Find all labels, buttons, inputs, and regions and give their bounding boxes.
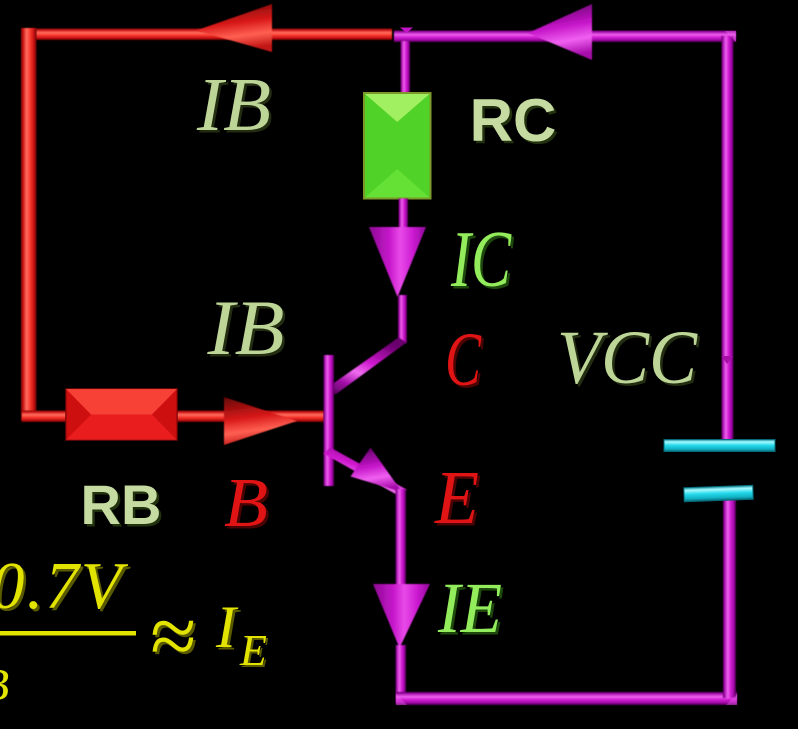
arrow: emitter current arrow on emitter lead (351, 448, 403, 493)
label E (emitter) (434, 456, 481, 543)
resistor RB (66, 389, 177, 440)
svg-text:B: B (224, 465, 268, 542)
wire: magenta right vertical upper (top to battery plus) (722, 36, 734, 440)
svg-text:IB: IB (196, 63, 271, 147)
arrow: red current arrow IB pointing right (into base) (224, 397, 297, 445)
joint chevron on right wire (722, 356, 734, 364)
arrow: red current arrow IB pointing left (top wire) (196, 4, 272, 52)
battery VCC negative plate (684, 485, 753, 501)
label C (collector) (445, 318, 484, 405)
label RC (470, 87, 559, 157)
svg-text:IE: IE (437, 568, 502, 648)
wire: magenta emitter vertical down to IE arrow (396, 489, 407, 586)
resistor RC (364, 93, 431, 199)
svg-text:C: C (445, 318, 482, 402)
wire: magenta right vertical lower (battery minus to bottom) (723, 500, 736, 698)
label VCC (557, 316, 701, 403)
transistor Q1 collector lead (diagonal) (328, 338, 407, 395)
battery VCC positive plate (664, 440, 775, 452)
arrow: magenta current arrow IE pointing down (373, 584, 430, 648)
svg-text:0.7V: 0.7V (0, 549, 129, 623)
svg-text:E: E (434, 456, 479, 540)
arrow: magenta current arrow IC pointing down (369, 227, 426, 297)
formula denominator RB partial (0, 659, 9, 710)
label B (base) (224, 465, 271, 545)
wire: magenta vertical from top node down to RC (401, 41, 411, 94)
junction chevron at top node (400, 28, 413, 34)
label IB (middle) (206, 284, 287, 374)
wire: magenta vertical below IE arrow to bottom corner (396, 645, 407, 703)
corner bevel bottom-right (726, 694, 737, 705)
transistor Q1 base bar (324, 355, 335, 486)
wire: magenta top horizontal (VCC loop) (394, 31, 736, 43)
label IE (437, 568, 504, 651)
label IC (450, 216, 514, 307)
wire: magenta vertical below RC (399, 199, 409, 229)
wire: magenta bottom horizontal (396, 692, 737, 705)
wire: red top horizontal (IB loop) (22, 29, 392, 41)
svg-text:IB: IB (206, 284, 284, 371)
svg-text:B: B (0, 659, 9, 710)
svg-text:≈: ≈ (149, 590, 195, 683)
wire: red left vertical (21, 28, 37, 421)
transistor Q1 emitter lead (diagonal) (324, 448, 407, 497)
svg-text:RB: RB (81, 473, 162, 536)
formula fraction bar (0, 631, 136, 636)
label IB (top) (196, 63, 274, 150)
arrow: magenta current arrow pointing left (top wire) (528, 4, 592, 60)
wire: magenta vertical from IC arrow to collector bend (398, 295, 407, 343)
formula numerator 0.7V (0, 549, 131, 626)
formula approx IE (149, 590, 198, 686)
svg-text:E: E (239, 626, 267, 675)
wire: red bottom horizontal into RB and base (22, 411, 324, 423)
corner bevel bottom-left (396, 694, 407, 705)
svg-text:RC: RC (470, 87, 557, 154)
svg-text:I: I (215, 594, 239, 660)
svg-text:VCC: VCC (557, 316, 698, 400)
label RB (81, 473, 164, 539)
svg-text:IC: IC (450, 216, 512, 304)
corner bevel top-right (725, 31, 736, 42)
